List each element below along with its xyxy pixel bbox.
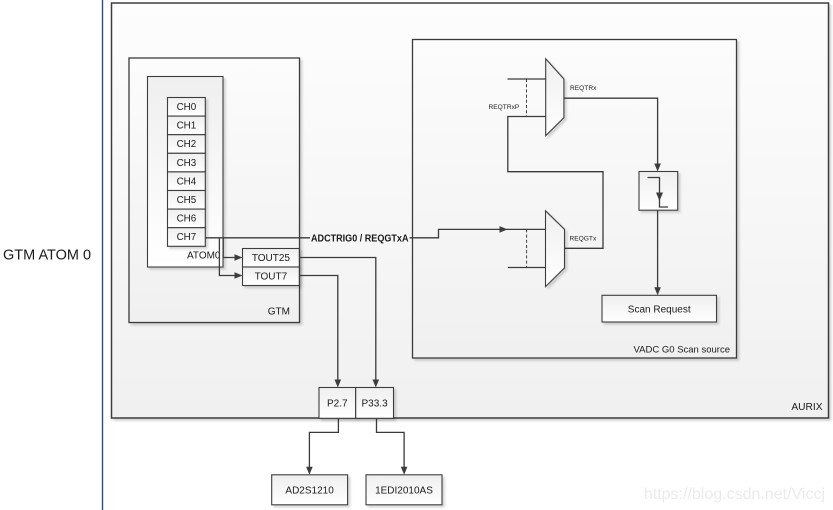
block TOUT7 — [243, 267, 300, 286]
svg-text:CH3: CH3 — [177, 158, 197, 169]
svg-text:P2.7: P2.7 — [327, 399, 348, 410]
wire lower input stub of REQGTx mux — [508, 267, 546, 269]
block edge detector — [639, 172, 678, 211]
svg-text:TOUT25: TOUT25 — [252, 253, 291, 264]
svg-text:https://blog.csdn.net/Viccj: https://blog.csdn.net/Viccj — [644, 486, 825, 503]
block P2.7 — [319, 388, 356, 419]
arrowhead into 1EDI2010AS — [401, 467, 408, 475]
channel stack CH0-CH7 — [168, 98, 206, 247]
wire upper input stub of REQTRx mux — [508, 78, 546, 80]
block TOUT25 — [243, 249, 300, 268]
block Scan Request — [602, 295, 717, 322]
svg-text:P33.3: P33.3 — [362, 399, 389, 410]
wire drop to TOUT7 — [219, 238, 234, 276]
svg-text:GTM ATOM 0: GTM ATOM 0 — [3, 248, 91, 264]
svg-text:GTM: GTM — [268, 307, 290, 318]
svg-text:CH1: CH1 — [177, 121, 197, 132]
wire REQGTx output loop to REQTRxP input — [508, 117, 603, 249]
block AD2S1210 — [272, 475, 348, 505]
svg-text:REQTRx: REQTRx — [570, 85, 597, 92]
block GTM — [129, 58, 300, 323]
arrowhead into edge detect box — [654, 164, 661, 172]
labels CH0-CH7 — [177, 102, 197, 243]
edge detector inner arrowhead — [656, 193, 663, 202]
wire edge detect to Scan Request — [657, 210, 659, 288]
arrowhead into P2.7 — [335, 380, 342, 388]
svg-text:ATOM0: ATOM0 — [187, 251, 221, 262]
block VADC G0 Scan source — [413, 40, 737, 359]
svg-text:CH5: CH5 — [177, 195, 197, 206]
mux REQGTx (bottom trapezoid) — [546, 211, 565, 287]
wire P33.3 to 1EDI2010AS — [377, 418, 405, 467]
svg-text:VADC G0 Scan source: VADC G0 Scan source — [634, 345, 730, 356]
svg-text:AURIX: AURIX — [791, 402, 822, 413]
wire TOUT25 to P33.3 — [299, 258, 376, 380]
dashed select line of REQGTx mux — [526, 229, 528, 267]
svg-text:ADCTRIG0 / REQGTxA: ADCTRIG0 / REQGTxA — [311, 233, 409, 245]
block ATOM0 — [148, 77, 224, 268]
wire CH7 to ADCTRIG0 (left of label) — [205, 237, 310, 239]
svg-text:AD2S1210: AD2S1210 — [285, 486, 334, 497]
block 1EDI2010AS — [366, 475, 442, 505]
mux REQTRx (top trapezoid) — [546, 59, 564, 136]
wire ADCTRIG0 (right of label) to REQGTx mux — [410, 229, 546, 237]
wire drop to TOUT25 — [223, 238, 235, 258]
svg-text:REQTRxP: REQTRxP — [489, 104, 520, 111]
svg-text:CH7: CH7 — [177, 232, 197, 243]
block P33.3 — [356, 388, 394, 419]
dashed select line of REQTRx mux — [526, 79, 528, 117]
svg-text:REQGTx: REQGTx — [570, 236, 597, 243]
svg-text:1EDI2010AS: 1EDI2010AS — [375, 486, 433, 497]
arrowhead into REQGTx mux wire — [500, 226, 508, 233]
page left rule (blue vertical line) — [102, 0, 104, 510]
svg-text:CH6: CH6 — [177, 214, 197, 225]
svg-text:Scan Request: Scan Request — [628, 305, 691, 316]
edge detector falling-edge symbol — [648, 178, 669, 208]
wire TOUT7 to P2.7 — [299, 276, 338, 380]
wire P2.7 to AD2S1210 — [309, 418, 338, 467]
arrowhead into Scan Request — [654, 287, 661, 295]
wire REQTRx output to edge detect box — [564, 98, 658, 164]
svg-text:CH0: CH0 — [177, 102, 197, 113]
arrowhead into P33.3 — [373, 380, 380, 388]
svg-text:CH2: CH2 — [177, 139, 197, 150]
arrowhead into TOUT7 — [235, 272, 243, 279]
arrowhead into TOUT25 — [235, 254, 243, 261]
block AURIX — [112, 3, 829, 418]
arrowhead into AD2S1210 — [306, 467, 313, 475]
svg-text:CH4: CH4 — [177, 176, 197, 187]
svg-text:TOUT7: TOUT7 — [255, 272, 288, 283]
